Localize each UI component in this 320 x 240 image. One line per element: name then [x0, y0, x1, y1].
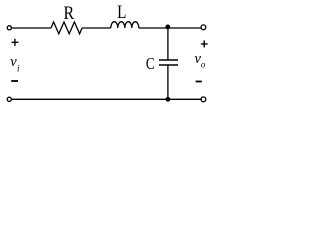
label R	[63, 1, 74, 23]
bottom rail wire	[12, 98, 201, 100]
node junction bottom	[166, 97, 171, 102]
wire capacitor down to bottom rail	[167, 65, 169, 99]
svg-text:L: L	[117, 1, 126, 22]
output terminal top-right (+)	[201, 25, 206, 30]
wire junction down to capacitor	[167, 28, 169, 60]
plus sign left	[12, 39, 19, 46]
input terminal top-left (+)	[7, 26, 11, 30]
output terminal bottom-right (-)	[201, 97, 206, 102]
inductor L	[111, 22, 139, 28]
input terminal bottom-left (-)	[7, 97, 11, 101]
svg-text:C: C	[146, 56, 155, 74]
plus sign right	[201, 40, 208, 47]
svg-text:i: i	[17, 63, 20, 73]
minus sign right	[196, 81, 202, 83]
minus sign left	[11, 80, 18, 82]
wire top-left to resistor	[12, 27, 51, 29]
label C	[146, 56, 155, 74]
label L	[117, 1, 126, 22]
svg-text:R: R	[63, 1, 74, 23]
node junction top	[165, 25, 170, 30]
capacitor C bottom plate	[159, 64, 178, 66]
resistor R	[51, 22, 82, 34]
wire inductor to output terminal	[139, 27, 201, 29]
capacitor C top plate	[159, 59, 178, 61]
wire resistor to inductor	[82, 27, 111, 29]
svg-text:o: o	[201, 60, 206, 70]
